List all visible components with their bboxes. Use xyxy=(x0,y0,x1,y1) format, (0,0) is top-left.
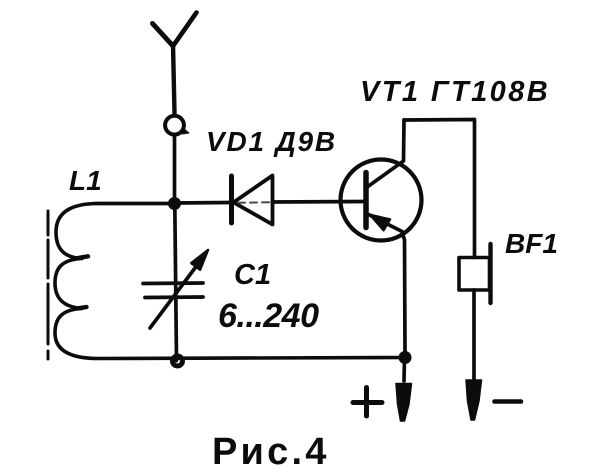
inductor cusp tick 1 xyxy=(78,256,88,258)
wire node A to diode xyxy=(175,201,232,205)
transistor VT1 collector xyxy=(367,120,405,188)
svg-text:L1: L1 xyxy=(69,165,102,196)
capacitor C1 adjustment arrow xyxy=(150,264,198,328)
svg-text:C1: C1 xyxy=(234,259,271,291)
inductor core dashed line xyxy=(47,211,50,359)
svg-text:6...240: 6...240 xyxy=(218,297,319,335)
wire diode to transistor base xyxy=(273,200,367,204)
minus terminal pin arrow xyxy=(466,380,482,420)
node C junction dot xyxy=(399,351,412,364)
capacitor C1 bottom plate xyxy=(145,295,203,299)
inductor cusp tick 2 xyxy=(78,307,87,308)
antenna WA xyxy=(153,13,197,114)
capacitor C1 top plate xyxy=(143,281,203,285)
transistor VT1 emitter arrowhead xyxy=(370,215,391,231)
wire connector to node A xyxy=(173,136,177,204)
svg-text:VD1 Д9В: VD1 Д9В xyxy=(206,126,337,157)
svg-text:Рис.4: Рис.4 xyxy=(212,431,330,473)
transistor VT1 circle xyxy=(341,160,422,241)
wire inside diode triangle (faint) xyxy=(238,201,269,204)
bottom wire xyxy=(96,358,405,359)
transistor VT1 emitter xyxy=(367,214,406,353)
transistor VT1 base bar xyxy=(363,173,369,228)
earphone BF1 bar xyxy=(488,244,492,303)
variable capacitor C1 wire xyxy=(175,204,177,361)
earphone BF1 body xyxy=(459,258,490,291)
svg-text:BF1: BF1 xyxy=(505,228,558,259)
minus sign xyxy=(495,399,522,404)
diode VD1 cathode bar xyxy=(229,176,234,223)
diode VD1 triangle xyxy=(234,176,273,225)
node A junction dot xyxy=(168,197,181,210)
wire BF1 to minus terminal xyxy=(472,290,476,379)
wire node C to plus terminal xyxy=(402,358,406,382)
svg-text:VT1 ГТ108В: VT1 ГТ108В xyxy=(360,76,550,108)
inductor L1 xyxy=(55,204,96,359)
wire top of coil xyxy=(96,202,175,206)
node B ring junction xyxy=(173,356,183,366)
wire collector top run xyxy=(404,120,475,258)
plus sign xyxy=(353,388,382,417)
capacitor C1 arrowhead xyxy=(191,250,208,270)
antenna connector X1 xyxy=(165,116,189,135)
plus terminal pin arrow xyxy=(396,384,412,422)
